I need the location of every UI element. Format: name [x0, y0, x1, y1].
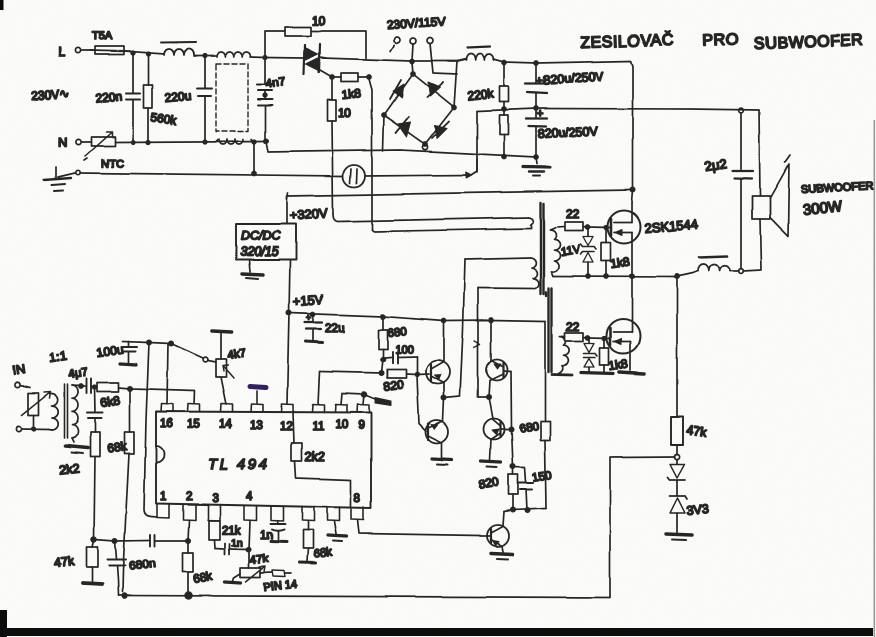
- wire bridge top to line: [412, 63, 413, 74]
- wire feedback node line: [122, 340, 216, 362]
- wire driver midpoint right: [478, 395, 493, 419]
- wire T3 base: [504, 371, 512, 429]
- ground caps: [523, 157, 550, 176]
- resistor R19 68k: [300, 522, 334, 564]
- trimmer R18 47k: [241, 553, 298, 594]
- wire feedback to bottom rail: [610, 457, 675, 597]
- svg-text:2μ2: 2μ2: [703, 156, 727, 174]
- junction N to ground line: [252, 142, 256, 176]
- transformer TR1 primary winding B: [465, 258, 539, 289]
- resistor R3 1k8: [330, 73, 371, 102]
- svg-text:1:1: 1:1: [48, 348, 68, 365]
- svg-text:4k7: 4k7: [227, 348, 247, 362]
- common-mode choke L2 dashed box: [216, 52, 253, 144]
- svg-text:47k: 47k: [53, 554, 75, 570]
- capacitor C5 820u/250V: [525, 63, 604, 109]
- transistor T1: [426, 360, 450, 384]
- zener pair D3 11V: [560, 229, 596, 278]
- svg-text:2k2: 2k2: [305, 450, 325, 464]
- resistor R16 2k2 internal: [292, 413, 352, 508]
- inductor L3: [466, 47, 504, 62]
- capacitor C4 4n7: [258, 74, 287, 141]
- svg-text:1n: 1n: [231, 537, 243, 549]
- wire output to speaker: [739, 219, 761, 273]
- svg-text:1k8: 1k8: [341, 86, 362, 102]
- wire ground line: [80, 158, 477, 178]
- wire bottom rail: [119, 594, 611, 598]
- svg-text:T5A: T5A: [92, 30, 113, 42]
- svg-text:22: 22: [566, 320, 580, 334]
- capacitor C16 680n: [108, 541, 156, 596]
- anti-parallel diodes D1 D2: [304, 44, 332, 77]
- wire plus rail top: [502, 61, 635, 193]
- svg-text:2k2: 2k2: [59, 461, 81, 477]
- ground gate2: [581, 373, 613, 374]
- MOSFET Q2: [589, 319, 640, 370]
- wire top line to diodes: [194, 54, 303, 59]
- capacitor C7 22u: [305, 313, 346, 343]
- bridge rectifier B1: [382, 72, 456, 146]
- svg-text:3V3: 3V3: [686, 502, 710, 518]
- capacitor C3 4n7: [257, 58, 272, 100]
- resistor R23 47k: [53, 541, 102, 585]
- wire primary B to driver midpoints: [460, 260, 480, 398]
- wire bridge right up: [454, 61, 457, 107]
- input terminals: [15, 382, 22, 431]
- svg-text:220n: 220n: [95, 89, 123, 106]
- svg-text:PRO: PRO: [703, 32, 740, 50]
- svg-text:220k: 220k: [467, 86, 495, 103]
- svg-text:IN: IN: [11, 361, 26, 378]
- svg-text:47k: 47k: [249, 553, 269, 567]
- wire pin8 to T5: [358, 520, 481, 536]
- svg-text:68k: 68k: [106, 439, 128, 456]
- wire L to choke: [124, 51, 164, 56]
- svg-text:16: 16: [160, 418, 173, 430]
- resistor R6 220k: [500, 109, 509, 159]
- wire top to speaker: [759, 110, 760, 196]
- svg-text:TL 494: TL 494: [208, 456, 269, 473]
- capacitor C14: [87, 385, 103, 432]
- ground Q2 source: [619, 372, 644, 374]
- svg-text:4: 4: [246, 491, 253, 503]
- resistor R4 10 vertical: [328, 79, 352, 214]
- svg-text:100: 100: [395, 344, 413, 356]
- resistor R9 22: [565, 320, 590, 342]
- wire T1 collector: [443, 321, 445, 361]
- fuse F1 T5A: [90, 30, 130, 54]
- svg-text:820: 820: [382, 377, 404, 394]
- DC/DC converter box: [236, 196, 296, 260]
- transformer TR1 core: [541, 203, 552, 372]
- svg-text:DC/DC: DC/DC: [241, 229, 282, 243]
- capacitor C1 220n: [95, 53, 140, 141]
- svg-text:+: +: [306, 313, 311, 323]
- speaker SUBWOOFER: [752, 155, 873, 236]
- thermistor NTC: [84, 132, 124, 170]
- svg-text:11: 11: [312, 421, 324, 433]
- ground PE: [44, 167, 80, 191]
- resistor R7 22: [565, 207, 590, 231]
- resistor R24 68k: [183, 541, 215, 599]
- transistor T3: [487, 321, 508, 398]
- resistor R22 68k: [106, 389, 134, 593]
- svg-text:NTC: NTC: [101, 158, 124, 170]
- resistor R2 10: [265, 14, 366, 58]
- wire pin15: [131, 389, 195, 404]
- terminal L: [58, 44, 95, 59]
- svg-text:+15V: +15V: [292, 292, 324, 309]
- resistor R10 1k8: [600, 337, 629, 373]
- wire pin13 blue mark: [250, 387, 266, 404]
- capacitor C10 150: [513, 467, 552, 513]
- svg-text:21k: 21k: [222, 525, 241, 537]
- svg-text:L: L: [58, 44, 65, 59]
- wire T1 emitter to midpoint: [442, 383, 460, 400]
- ground DC/DC: [242, 260, 263, 279]
- svg-text:680n: 680n: [128, 556, 156, 573]
- wire pin12 VCC: [287, 313, 289, 404]
- svg-text:9: 9: [358, 420, 364, 432]
- resistor R14 680: [519, 322, 550, 509]
- svg-text:220u: 220u: [164, 89, 192, 105]
- wire +320V line: [287, 190, 632, 199]
- transformer TR1 secondary top: [550, 227, 565, 277]
- wire output rail: [553, 271, 698, 279]
- wire bridge left down: [383, 115, 428, 151]
- wire 1k8 down right: [369, 79, 372, 230]
- capacitor C6 820u/250V: [526, 108, 599, 159]
- title ZESILOVAC PRO SUBWOOFER: [580, 30, 863, 53]
- wire +15V: [287, 260, 545, 323]
- svg-text:3: 3: [212, 493, 218, 505]
- ground feedback: [666, 535, 692, 541]
- svg-text:10: 10: [312, 14, 326, 28]
- potentiometer P1: [20, 386, 51, 431]
- svg-text:8: 8: [354, 493, 360, 505]
- wire bridge plus to choke: [457, 59, 466, 61]
- svg-text:680: 680: [387, 326, 407, 340]
- switch terminals: [390, 37, 433, 51]
- pin numbers top: [160, 418, 364, 433]
- capacitor C9 100: [385, 344, 417, 374]
- svg-text:N: N: [58, 135, 67, 150]
- trimmer P2 4k7: [212, 331, 247, 404]
- pin stubs bottom: [157, 504, 364, 521]
- wire node N1: [320, 359, 384, 375]
- wire Q1 source to Q2 drain: [631, 276, 633, 319]
- svg-text:15: 15: [187, 419, 200, 431]
- resistor R12 680: [379, 317, 408, 362]
- svg-text:10: 10: [335, 419, 348, 431]
- svg-text:4n7: 4n7: [264, 74, 286, 91]
- capacitor C8 2u2: [703, 108, 753, 269]
- MOSFET Q1 2SK1544: [588, 203, 699, 278]
- wire to T2 base: [417, 376, 426, 432]
- svg-text:2: 2: [186, 491, 192, 503]
- transformer TR2 1to1: [48, 348, 78, 438]
- ground T4: [481, 461, 501, 467]
- neon lamp: [343, 165, 365, 187]
- wire pins 9 10: [341, 392, 391, 405]
- wire pin4: [249, 521, 250, 568]
- wire N line: [115, 139, 268, 144]
- capacitor C12 1n: [260, 521, 287, 542]
- svg-text:47k: 47k: [686, 423, 709, 440]
- svg-text:10: 10: [338, 106, 352, 120]
- svg-text:230V∿: 230V∿: [31, 86, 70, 103]
- capacitor C17 series: [150, 535, 188, 547]
- resistor R21 2k2: [59, 432, 100, 539]
- svg-text:1k8: 1k8: [609, 254, 630, 271]
- capacitor C2 220u: [164, 56, 212, 141]
- wire pin2: [186, 520, 190, 543]
- pin stubs top: [161, 404, 369, 413]
- svg-text:1: 1: [160, 491, 166, 503]
- svg-text:320/15: 320/15: [240, 245, 278, 259]
- resistor R5 220k: [467, 63, 509, 111]
- ground trimmer: [225, 574, 241, 583]
- inductor L1: [161, 43, 196, 56]
- ground T2: [432, 459, 452, 465]
- wire pin16: [167, 344, 168, 404]
- wire mid rail: [477, 107, 759, 173]
- resistor R13 820: [382, 370, 419, 394]
- node P bottom: [92, 537, 149, 543]
- transistor T2: [426, 398, 449, 457]
- svg-text:13: 13: [250, 420, 263, 432]
- wire drain Q1: [632, 190, 633, 203]
- terminal N: [58, 135, 91, 150]
- pin numbers bottom: [160, 491, 360, 505]
- transformer TR1 primary winding A: [333, 214, 533, 232]
- capacitor C13 4u7: [68, 366, 97, 393]
- ground pin7: [328, 522, 347, 542]
- ground T5: [491, 554, 513, 560]
- resistor R11 47k: [671, 277, 708, 460]
- transistor T5: [480, 511, 509, 552]
- svg-text:14: 14: [219, 419, 232, 431]
- capacitor C11 1n: [215, 537, 251, 555]
- wire base feed down: [511, 429, 515, 468]
- resistor R20 6k8: [97, 383, 132, 410]
- wire main top line: [322, 58, 457, 61]
- wire pin1: [144, 343, 157, 518]
- IC U1 TL494: [156, 412, 371, 509]
- zener D6 3V3: [670, 481, 710, 533]
- wire to T1 base: [417, 373, 429, 376]
- svg-text:+: +: [537, 108, 543, 120]
- ground TR2: [66, 438, 88, 453]
- svg-text:22u: 22u: [325, 321, 345, 335]
- svg-text:22: 22: [566, 207, 580, 221]
- wire node row: [504, 508, 546, 511]
- resistor R8 1k8: [601, 226, 631, 278]
- svg-text:1n: 1n: [260, 530, 273, 542]
- svg-text:12: 12: [280, 421, 293, 433]
- wire N to bridge: [266, 142, 536, 157]
- transistor T4: [484, 419, 514, 461]
- resistor R1 560k: [144, 54, 179, 142]
- transformer TR1 secondary bottom: [552, 337, 572, 375]
- zener pair D4: [584, 339, 598, 372]
- svg-text:+320V: +320V: [289, 205, 328, 223]
- resistor R15 820: [478, 466, 518, 512]
- wire switch to line: [410, 44, 457, 74]
- capacitor C15 100u: [95, 342, 136, 365]
- resistor R17 22k: [209, 521, 241, 549]
- wire pin11: [318, 372, 320, 405]
- diode D5: [668, 460, 686, 481]
- inductor L4: [698, 257, 739, 272]
